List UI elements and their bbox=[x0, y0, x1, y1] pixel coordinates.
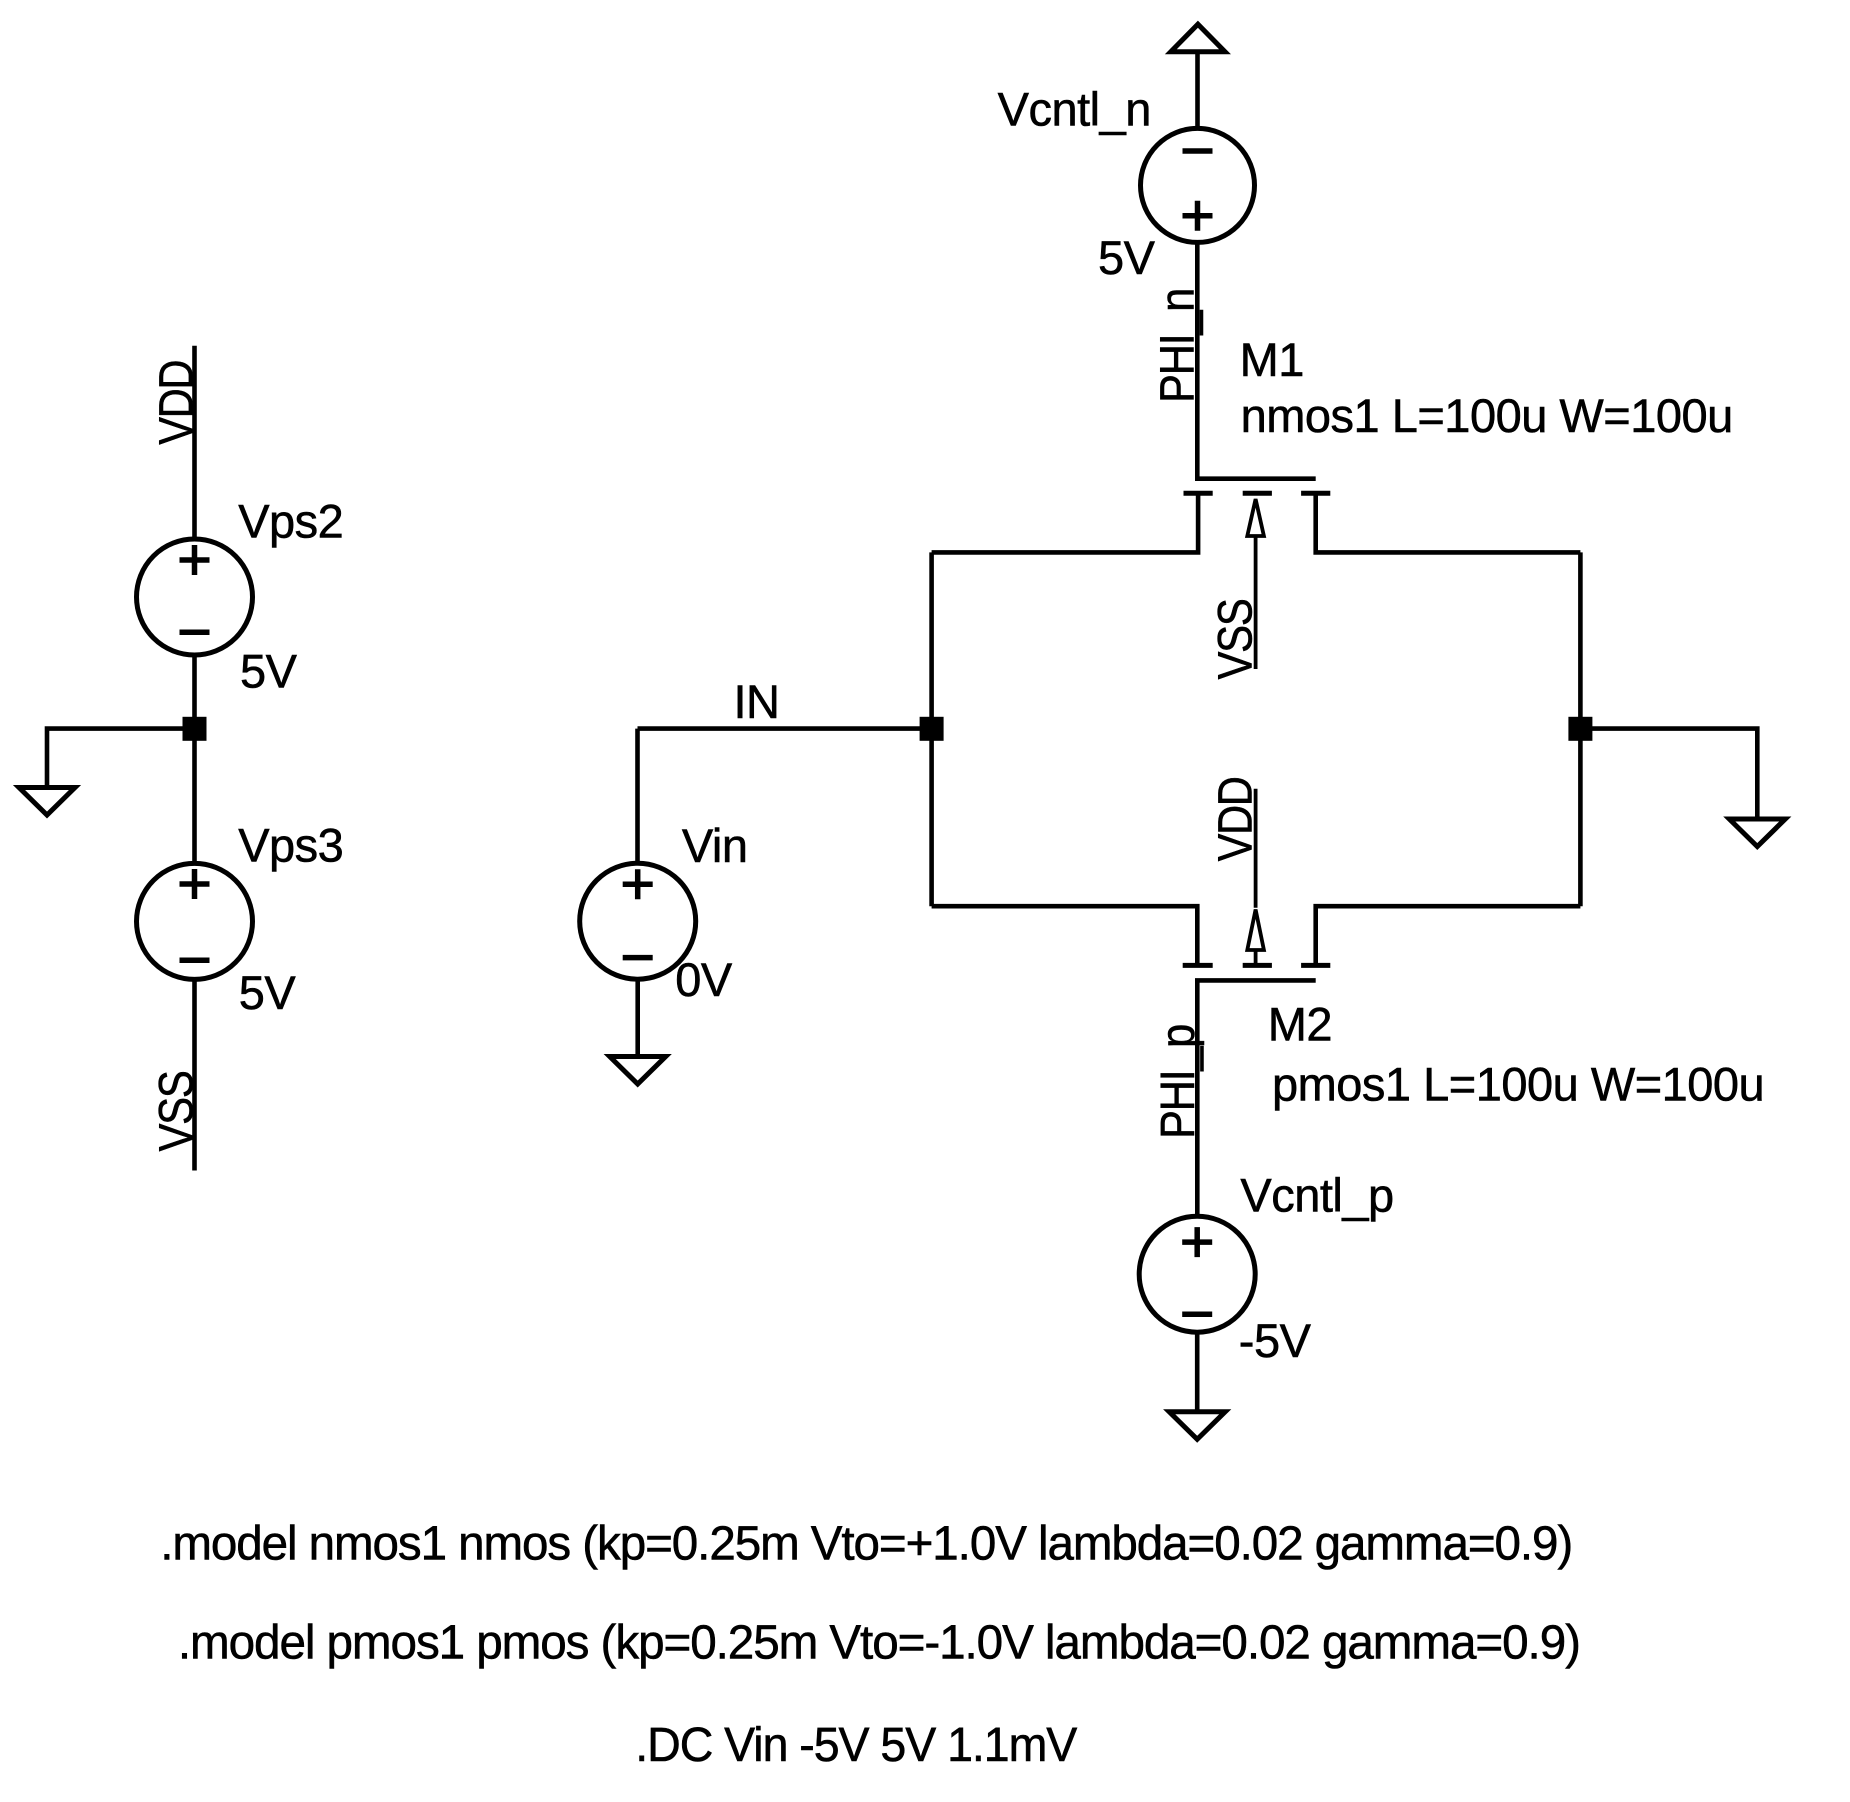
right bus wire bbox=[1578, 552, 1583, 906]
M2 drain lead and wire bbox=[1316, 906, 1581, 965]
svg-text:Vcntl_p: Vcntl_p bbox=[1240, 1169, 1393, 1222]
wire VSS stub bbox=[192, 979, 197, 1170]
svg-text:VSS: VSS bbox=[1209, 599, 1263, 679]
ground (Vcntl_p) bbox=[1169, 1412, 1225, 1440]
left bus wire bbox=[929, 552, 934, 906]
svg-text:Vin: Vin bbox=[682, 819, 748, 872]
svg-text:M1: M1 bbox=[1240, 333, 1304, 386]
wire Vps2 to node bbox=[192, 655, 197, 729]
svg-text:VSS: VSS bbox=[150, 1071, 204, 1151]
voltage source Vcntl_p bbox=[1139, 1216, 1255, 1332]
svg-text:5V: 5V bbox=[240, 644, 298, 697]
M1 bulk arrow (VSS) bbox=[1247, 499, 1264, 669]
ground (output) bbox=[1729, 819, 1785, 847]
M1 drain lead and wire bbox=[1316, 493, 1581, 552]
ground (Vin) bbox=[610, 1057, 666, 1085]
wire Vin bottom bbox=[635, 979, 640, 1056]
svg-text:pmos1 L=100u W=100u: pmos1 L=100u W=100u bbox=[1272, 1058, 1764, 1111]
nmos M1 channel dashes bbox=[1184, 491, 1331, 496]
svg-text:0V: 0V bbox=[675, 953, 733, 1006]
svg-text:-5V: -5V bbox=[1239, 1314, 1312, 1367]
ground (left) bbox=[19, 788, 75, 816]
svg-text:5V: 5V bbox=[239, 966, 297, 1019]
node OUT bbox=[1568, 717, 1592, 741]
wire node to ground bbox=[47, 729, 195, 787]
svg-text:.DC Vin -5V 5V 1.1mV: .DC Vin -5V 5V 1.1mV bbox=[635, 1719, 1077, 1772]
wire VDD stub bbox=[192, 346, 197, 539]
wire Vcntl_p to ground bbox=[1195, 1332, 1200, 1411]
voltage source Vps2 bbox=[137, 539, 253, 655]
M2 bulk arrow (VDD) bbox=[1247, 789, 1264, 966]
M2 gate bar and gate wire bbox=[1197, 980, 1315, 1216]
M1 source lead and wire bbox=[932, 493, 1199, 552]
svg-text:IN: IN bbox=[734, 675, 780, 728]
power arrow (Vcntl_n net stub) bbox=[1171, 24, 1225, 52]
svg-text:.model pmos1 pmos (kp=0.25m Vt: .model pmos1 pmos (kp=0.25m Vto=-1.0V la… bbox=[178, 1617, 1580, 1670]
svg-text:Vps2: Vps2 bbox=[238, 494, 343, 547]
wire PHI_n (gate wire) bbox=[1197, 241, 1315, 478]
wire Vin top bbox=[635, 729, 640, 864]
wire node to Vps3 bbox=[192, 729, 197, 864]
voltage source Vps3 bbox=[137, 863, 253, 979]
voltage source Vin bbox=[580, 863, 696, 979]
svg-text:Vcntl_n: Vcntl_n bbox=[998, 83, 1151, 136]
wire IN bbox=[638, 726, 932, 731]
svg-text:PHI_p: PHI_p bbox=[1151, 1025, 1205, 1139]
svg-text:PHI_n: PHI_n bbox=[1151, 289, 1205, 403]
svg-text:.model nmos1 nmos (kp=0.25m Vt: .model nmos1 nmos (kp=0.25m Vto=+1.0V la… bbox=[160, 1518, 1572, 1571]
svg-text:M2: M2 bbox=[1268, 997, 1332, 1050]
svg-text:VDD: VDD bbox=[1209, 777, 1263, 861]
svg-text:Vps3: Vps3 bbox=[238, 819, 343, 872]
pmos M2 channel dashes bbox=[1183, 963, 1331, 968]
node IN bbox=[920, 717, 944, 741]
node (left rail junction) bbox=[183, 717, 207, 741]
svg-text:nmos1 L=100u W=100u: nmos1 L=100u W=100u bbox=[1241, 389, 1733, 442]
M2 source lead and wire bbox=[932, 906, 1198, 965]
wire arrow to Vcntl_n bbox=[1195, 52, 1200, 130]
voltage source Vcntl_n bbox=[1141, 128, 1255, 242]
svg-text:5V: 5V bbox=[1098, 231, 1156, 284]
wire OUT bbox=[1580, 729, 1757, 817]
